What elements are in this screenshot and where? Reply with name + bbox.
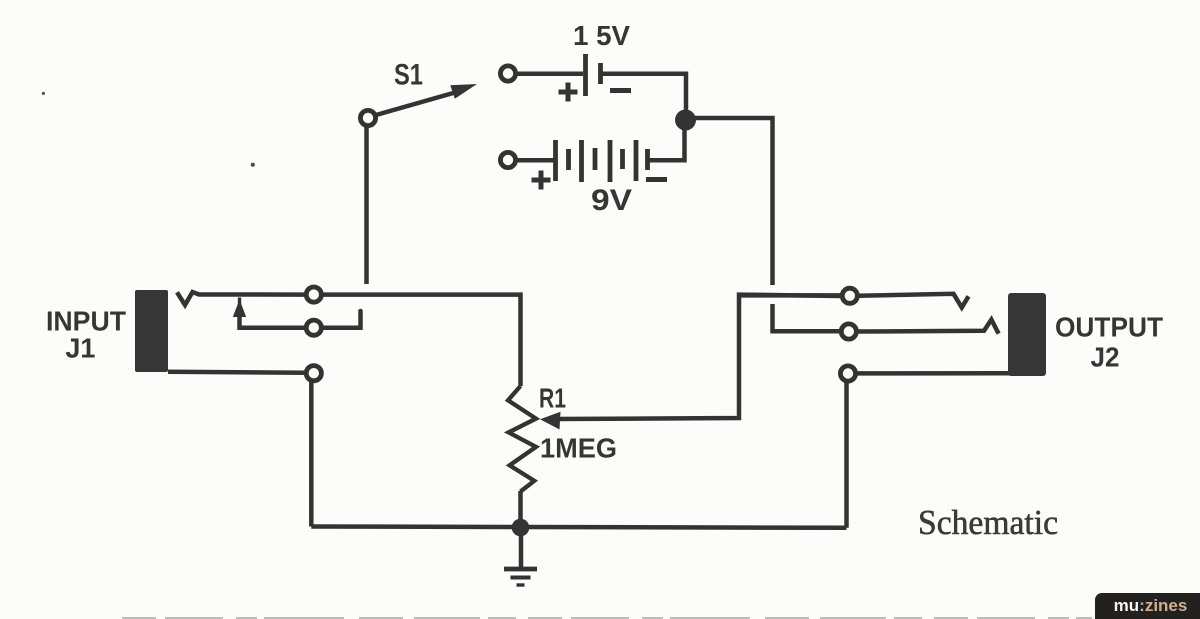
svg-text:9V: 9V xyxy=(591,184,632,217)
svg-text:1 5V: 1 5V xyxy=(573,20,630,51)
svg-text:J1: J1 xyxy=(65,332,95,363)
svg-text:Schematic: Schematic xyxy=(918,503,1058,542)
svg-text:S1: S1 xyxy=(394,59,423,92)
svg-text:R1: R1 xyxy=(539,383,566,414)
svg-text:1MEG: 1MEG xyxy=(540,433,617,464)
svg-text:OUTPUT: OUTPUT xyxy=(1055,311,1163,342)
svg-text:J2: J2 xyxy=(1091,342,1120,373)
